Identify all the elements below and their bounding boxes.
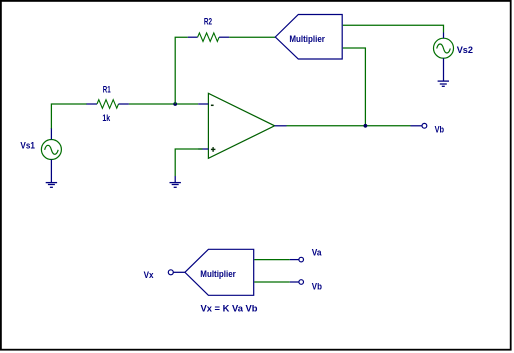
- svg-text:R1: R1: [103, 85, 111, 96]
- svg-text:Va: Va: [312, 248, 322, 259]
- svg-text:Vs2: Vs2: [457, 45, 473, 56]
- ground (op-amp + input): [170, 176, 181, 187]
- wire R2 to multiplier U1: [229, 36, 275, 38]
- svg-text:R2: R2: [204, 16, 212, 27]
- wire op-amp + input to ground: [175, 149, 202, 176]
- wire U1 lower output to output node: [343, 48, 366, 126]
- ground (below Vs2): [438, 81, 449, 86]
- junction at inverting input node: [173, 102, 177, 106]
- svg-text:1k: 1k: [102, 113, 110, 124]
- terminal Vx: [168, 270, 185, 275]
- multiplier U3: [185, 249, 254, 295]
- svg-text:Vs1: Vs1: [20, 140, 35, 151]
- svg-text:Vx: Vx: [144, 270, 154, 281]
- wire U3 to Va terminal: [254, 259, 299, 261]
- voltage source Vs1: [41, 128, 61, 183]
- svg-text:Vb: Vb: [435, 125, 445, 136]
- op-amp U2: [198, 93, 286, 158]
- wire R1 to op-amp inverting input: [129, 103, 198, 105]
- resistor R2: [188, 33, 230, 42]
- terminal Vb (bottom): [299, 280, 304, 285]
- wire U1 output to Vs2: [343, 25, 444, 32]
- voltage source Vs2: [434, 33, 454, 82]
- svg-text:Vx = K Va Vb: Vx = K Va Vb: [201, 304, 258, 315]
- wire U3 to Vb terminal: [254, 281, 299, 283]
- svg-text:Vb: Vb: [312, 282, 322, 293]
- ground (below Vs1): [46, 183, 57, 188]
- wire junction up to R2: [175, 37, 188, 104]
- terminal Vb: [411, 123, 427, 128]
- wire op-amp output to Vb terminal: [287, 125, 411, 127]
- wire Vs1 to R1: [51, 104, 87, 129]
- multiplier U1: [275, 15, 342, 60]
- svg-text:Multiplier: Multiplier: [289, 34, 325, 45]
- resistor R1: [87, 100, 129, 109]
- junction at output node: [364, 124, 368, 128]
- terminal Va: [299, 257, 304, 262]
- svg-text:Multiplier: Multiplier: [200, 269, 236, 280]
